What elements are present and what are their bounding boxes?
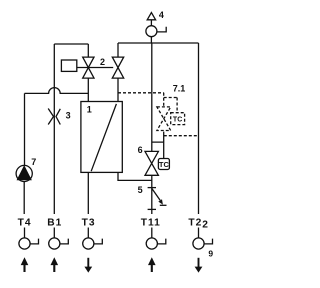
arrow B1 up xyxy=(53,265,55,273)
arrow T11 up xyxy=(151,265,153,273)
svg-text:2: 2 xyxy=(100,57,105,67)
coupling 3 left chevron xyxy=(48,109,53,125)
controller TC of valve 6 xyxy=(158,159,169,170)
balancing valve 5 stem diagonal xyxy=(152,188,160,200)
wire actuator linkage xyxy=(77,67,113,69)
wire right return pipe xyxy=(198,43,200,214)
dashed control line from supply xyxy=(118,92,164,94)
sensor circle T4 xyxy=(19,238,30,249)
svg-text:4: 4 xyxy=(159,10,164,20)
sensor circle T22 xyxy=(193,238,204,249)
sensor hook T3 xyxy=(94,239,102,244)
valve 2 right body xyxy=(112,57,123,78)
svg-text:5: 5 xyxy=(138,185,143,195)
sensor hook T22 xyxy=(204,239,212,244)
wire valve2 left top stem xyxy=(87,44,89,57)
wire top-right horizontal xyxy=(118,42,199,44)
pump 7 impeller triangle xyxy=(18,167,31,180)
balancing valve 5 arrowhead xyxy=(158,199,163,204)
wire T3 riser xyxy=(87,172,89,214)
svg-text:B1: B1 xyxy=(47,218,62,229)
balancing valve 5 top tick xyxy=(148,187,156,189)
air vent 4 stem lower xyxy=(150,37,152,43)
sensor circle T11 xyxy=(146,238,157,249)
air vent 4 triangle xyxy=(147,13,155,20)
wire T11 stem to sensor xyxy=(151,228,153,239)
sensor hook B1 xyxy=(60,239,68,244)
balancing valve 5 end bar xyxy=(160,204,167,206)
svg-text:9: 9 xyxy=(208,248,213,258)
pump 7 circle xyxy=(16,165,32,181)
wire B1 riser xyxy=(53,44,55,214)
svg-text:1: 1 xyxy=(87,104,92,114)
optional valve 7.1 body dashed xyxy=(157,107,171,131)
air vent 4 stem upper xyxy=(150,20,152,26)
actuator box of valve 2 xyxy=(61,60,76,71)
wire valve 6 bottom stem to T11 xyxy=(151,175,153,214)
dashed branch to TC 7.1 xyxy=(164,98,177,113)
sensor hook T4 xyxy=(30,239,38,244)
svg-text:3: 3 xyxy=(66,110,71,120)
svg-text:TC: TC xyxy=(159,160,170,169)
svg-text:T3: T3 xyxy=(82,218,96,229)
sensor hook T11 xyxy=(157,239,165,244)
sensor circle B1 xyxy=(49,238,60,249)
wire top-left horizontal B1 to valve 2 xyxy=(54,43,88,45)
balancing valve 5 bottom tick xyxy=(148,208,156,210)
wire T4 horizontal with hop over B1 xyxy=(25,88,89,94)
controller TC 7.1 dashed box xyxy=(171,113,185,125)
wire T4 stem to sensor xyxy=(24,228,26,239)
svg-text:T11: T11 xyxy=(141,218,161,229)
coupling 3 right chevron xyxy=(56,109,60,125)
dashed stem to optional valve 7.1 xyxy=(163,93,165,107)
wire valve2 left bottom stem xyxy=(87,78,89,101)
svg-text:7.1: 7.1 xyxy=(173,83,186,93)
svg-text:TC: TC xyxy=(173,117,182,124)
wire B1 stem to sensor xyxy=(53,228,55,239)
svg-text:7: 7 xyxy=(31,157,36,167)
valve 6 body xyxy=(145,151,158,175)
svg-text:T4: T4 xyxy=(18,218,32,229)
wire HX bottom-right to valve 5 xyxy=(118,172,152,180)
svg-text:6: 6 xyxy=(138,145,143,155)
wire valve2 right bottom stem xyxy=(117,78,119,101)
wire T22 stem to sensor xyxy=(198,228,200,239)
wire valve 6 top stem xyxy=(151,43,153,151)
wire jog to optional valve xyxy=(152,132,164,159)
valve 2 left body xyxy=(83,57,94,78)
dashed line to return pipe xyxy=(164,135,199,137)
wire T3 stem to sensor xyxy=(87,228,89,239)
heat exchanger 1 body xyxy=(81,102,122,173)
wire valve2 right top stem xyxy=(117,43,119,57)
air vent 4 hook xyxy=(157,27,166,32)
sensor circle T3 xyxy=(83,238,94,249)
heat exchanger 1 diagonal xyxy=(91,104,116,171)
arrow T4 up xyxy=(23,265,25,273)
wire T4 riser upper xyxy=(24,93,26,165)
arrow T22 down xyxy=(198,258,200,267)
air vent 4 circle xyxy=(146,26,157,37)
wire T4 riser lower xyxy=(23,182,25,214)
arrow T3 down xyxy=(87,258,89,267)
